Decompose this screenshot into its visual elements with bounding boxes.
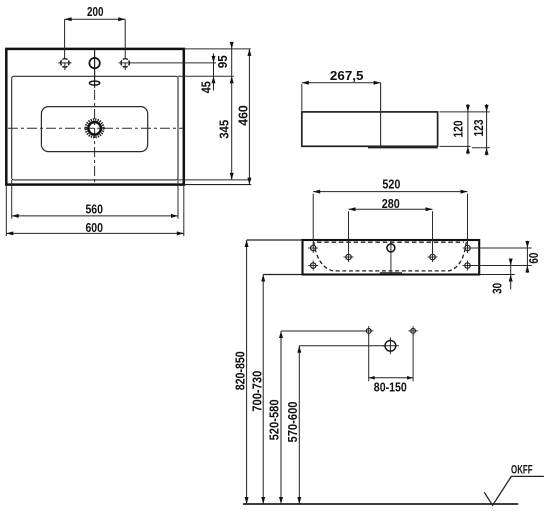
side view right extension lines	[440, 111, 490, 113]
svg-text:OKFF: OKFF	[511, 464, 533, 476]
front view: drain boss notch at bottom	[380, 272, 402, 274]
side view: bottom lip (123 deep part)	[368, 147, 438, 149]
svg-text:520: 520	[382, 177, 400, 192]
dimension 30 (lower holes to bottom edge)	[510, 259, 512, 290]
top view: right tap hole (dashed circle + cross), centerline extends right	[121, 59, 129, 67]
svg-text:267,5: 267,5	[330, 68, 364, 83]
dimension 120 (body height)	[467, 104, 469, 155]
svg-text:200: 200	[87, 4, 104, 19]
dimension 80-150 (supply spacing)	[368, 334, 370, 382]
svg-text:95: 95	[215, 55, 230, 68]
svg-text:60: 60	[526, 253, 541, 264]
installation height line 570-600 (floor to waste outlet)	[298, 346, 300, 504]
top view: drain with knurled ring	[88, 122, 101, 135]
top view: middle tap hole stem	[94, 50, 96, 88]
front view: hidden basin profile (dashed)	[314, 242, 467, 271]
front view: overflow hole circle top center	[387, 244, 395, 252]
front view right extension lines	[472, 247, 532, 249]
svg-text:700-730: 700-730	[249, 371, 264, 412]
front view: wall anchor holes right pair	[465, 245, 470, 250]
front view: wall anchor holes left pair	[311, 245, 316, 250]
installation height line 520-580 (floor to supply connections)	[280, 331, 282, 504]
top view: overflow oval below middle hole	[89, 81, 99, 85]
top view: horizontal centerline through drain	[8, 127, 183, 129]
water supply connection right (cross)	[411, 329, 416, 334]
dimension 95 (rim to deck line) and 345 shared line	[231, 43, 233, 180]
svg-text:520-580: 520-580	[267, 399, 282, 440]
top view: middle tap hole circle	[89, 58, 99, 68]
svg-text:123: 123	[471, 120, 486, 137]
waste outlet circle	[385, 340, 396, 351]
svg-text:460: 460	[236, 105, 251, 126]
front view: drain axis line	[390, 241, 392, 274]
top view: basin bowl rounded rectangle	[41, 107, 147, 152]
OKFF finished floor level symbol	[484, 476, 544, 505]
side view: body rectangle	[302, 112, 438, 146]
installation height line 820-850 (floor to rim top)	[246, 240, 248, 504]
dimension 560 (inner width)	[11, 180, 13, 219]
front view: fixing holes 280 apart	[346, 254, 351, 259]
dimension 460 (overall depth)	[248, 49, 250, 185]
dimension 280 (fixing hole spacing)	[348, 211, 350, 252]
top view: inner deck line rectangle (560 wide)	[12, 76, 178, 180]
dimension 520 (anchor hole spacing)	[312, 194, 314, 244]
svg-text:600: 600	[85, 220, 103, 235]
dimension 267,5	[301, 84, 303, 111]
dimension 45 (tap centerline to deck line)	[213, 54, 215, 91]
svg-text:560: 560	[85, 202, 103, 217]
dimension 60 (between anchor hole rows)	[526, 241, 528, 273]
water supply connection left (cross)	[366, 329, 371, 334]
floor line	[243, 503, 518, 505]
svg-text:570-600: 570-600	[285, 402, 300, 443]
svg-text:45: 45	[198, 81, 213, 93]
front view: hidden rim inner line (dashed)	[317, 241, 464, 243]
svg-text:345: 345	[217, 120, 232, 139]
dimension 600 (overall width)	[5, 185, 7, 237]
dimension 123 (height incl. lip)	[486, 104, 488, 156]
installation height line 700-730 (floor to body bottom)	[262, 275, 264, 505]
front view: body rectangle	[303, 240, 480, 275]
top view: left tap hole (dashed circle + cross)	[61, 59, 69, 67]
svg-text:30: 30	[489, 283, 504, 294]
svg-text:820-850: 820-850	[232, 351, 247, 390]
svg-text:280: 280	[382, 196, 400, 211]
dimension 200 (tap hole spacing)	[65, 18, 126, 20]
side view: vertical line at 267.5 + extension up	[380, 83, 382, 147]
right-side extension lines of top view	[184, 48, 251, 50]
top view: vertical centerline through drain	[94, 90, 96, 184]
washbasin top view: outer rim rectangle 600x460	[6, 49, 184, 185]
svg-text:120: 120	[450, 121, 465, 138]
svg-text:80-150: 80-150	[374, 380, 407, 395]
